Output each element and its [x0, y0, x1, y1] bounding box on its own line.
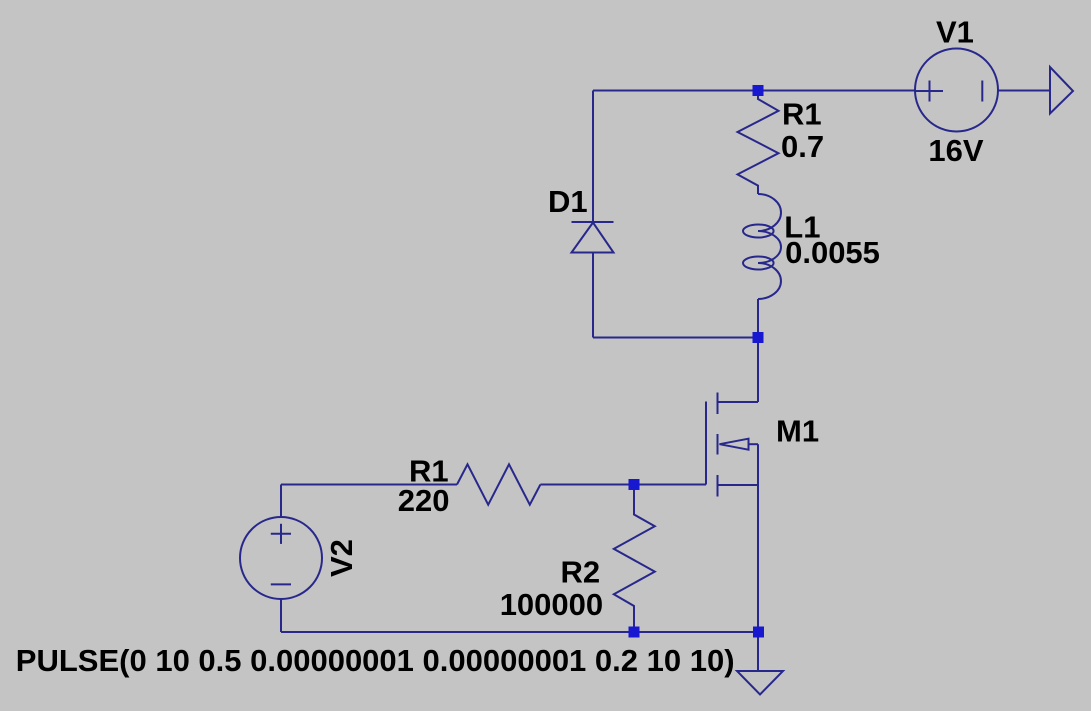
voltage source V1 — [915, 49, 1050, 132]
resistor R1 (220) — [457, 464, 540, 504]
svg-text:V2: V2 — [324, 539, 359, 577]
ground — [737, 632, 783, 695]
junction node C (gate) — [629, 479, 640, 490]
svg-text:D1: D1 — [548, 184, 588, 219]
inductor L1 — [743, 194, 781, 299]
wire bottom horizontal — [281, 631, 758, 633]
svg-text:R1: R1 — [782, 97, 822, 132]
node flag output triangle — [1050, 67, 1073, 114]
junction node A — [753, 85, 764, 96]
wire D1 branch lower vertical — [592, 253, 594, 338]
wire L1 to drain node — [757, 299, 759, 402]
voltage source V2 — [240, 485, 322, 633]
svg-text:R2: R2 — [561, 555, 601, 590]
junction node D — [629, 627, 640, 638]
wire V2 to R1 — [281, 484, 457, 486]
junction node B — [753, 332, 764, 343]
svg-text:0.0055: 0.0055 — [785, 235, 880, 270]
resistor R1 (0.7) — [738, 91, 779, 195]
transistor M1 — [706, 393, 758, 497]
wire gate horizontal — [634, 484, 706, 486]
wire top horizontal (D1 top to V1) — [593, 90, 915, 92]
wire D1 branch upper vertical — [592, 91, 594, 223]
wire loop bottom horizontal — [593, 337, 758, 339]
svg-text:220: 220 — [398, 483, 450, 518]
svg-text:16V: 16V — [928, 133, 983, 168]
svg-text:M1: M1 — [776, 414, 819, 449]
wire R1 to gate node — [540, 484, 634, 486]
wire source vertical — [757, 485, 759, 632]
diode D1 — [572, 222, 614, 253]
svg-text:0.7: 0.7 — [781, 129, 824, 164]
junction node E — [753, 627, 764, 638]
svg-text:V1: V1 — [936, 15, 974, 50]
svg-text:100000: 100000 — [500, 587, 603, 622]
resistor R2 — [614, 485, 655, 633]
svg-text:PULSE(0 10 0.5 0.00000001 0.00: PULSE(0 10 0.5 0.00000001 0.00000001 0.2… — [16, 643, 735, 678]
